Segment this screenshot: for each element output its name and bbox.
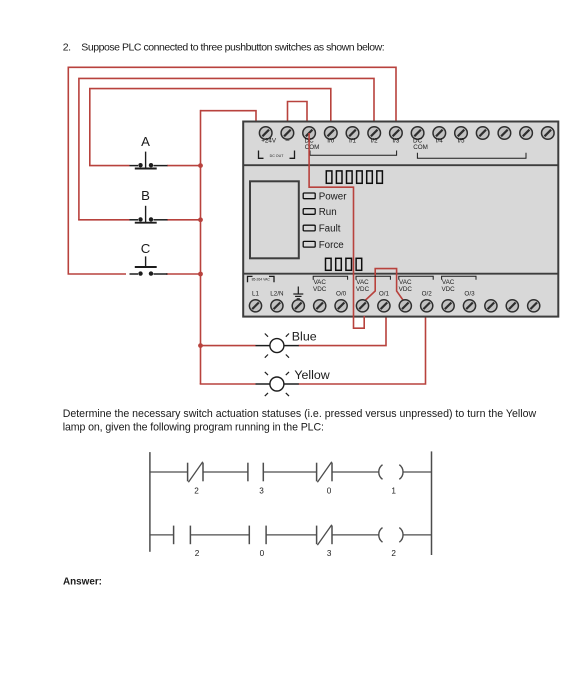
svg-text:0: 0 — [327, 486, 332, 495]
bottom terminal screws — [249, 300, 539, 312]
PLC body outline — [243, 122, 558, 317]
top terminal screws — [259, 127, 554, 140]
yellow indicator lamp — [256, 368, 330, 396]
wire: switch A row red segments — [89, 165, 130, 167]
svg-text:85-264 VAC: 85-264 VAC — [252, 278, 271, 282]
wire: switch B row red segments — [78, 219, 129, 221]
svg-text:Determine the necessary switch: Determine the necessary switch actuation… — [63, 408, 537, 420]
svg-text:2: 2 — [194, 486, 199, 495]
rung 1 NO contact 3 — [248, 463, 264, 496]
svg-text:0: 0 — [260, 549, 265, 558]
bottom row of 4 connector slots — [326, 258, 362, 270]
input group bracket I/0-I/3 — [310, 151, 397, 156]
svg-text:O/1: O/1 — [379, 291, 390, 298]
svg-text:I/4: I/4 — [436, 138, 443, 145]
svg-text:VDC: VDC — [356, 286, 370, 293]
status LEDs and labels — [303, 191, 347, 250]
pushbutton A (normally closed) — [130, 134, 168, 169]
svg-text:O/2: O/2 — [422, 291, 433, 298]
svg-text:2: 2 — [391, 549, 396, 558]
ground terminal symbol — [293, 287, 303, 299]
ladder left power rail — [149, 452, 151, 552]
wire: yellow lamp row red segments — [200, 383, 256, 385]
rung 1 wire — [150, 471, 432, 473]
svg-text:O/0: O/0 — [336, 291, 347, 298]
85-264 VAC bracket — [248, 276, 275, 282]
svg-text:L2/N: L2/N — [270, 291, 284, 298]
svg-text:lamp on, given the following p: lamp on, given the following program run… — [63, 421, 324, 433]
svg-text:DC OUT: DC OUT — [270, 154, 285, 158]
top row of 6 connector slots — [326, 171, 382, 183]
svg-text:VDC: VDC — [399, 286, 413, 293]
svg-text:VDC: VDC — [441, 286, 455, 293]
svg-text:Blue: Blue — [292, 329, 317, 343]
rung 2 NC contact 3 — [317, 525, 332, 559]
svg-text:C: C — [141, 241, 151, 256]
svg-text:Force: Force — [319, 240, 345, 251]
svg-text:Fault: Fault — [319, 224, 341, 235]
svg-text:I/3: I/3 — [392, 138, 399, 145]
svg-text:+24V: +24V — [261, 138, 277, 145]
svg-text:I/2: I/2 — [371, 138, 378, 145]
rung 1 NC contact 0 — [317, 462, 332, 496]
svg-text:Yellow: Yellow — [294, 368, 329, 382]
answer label — [63, 576, 102, 587]
pushbutton C (normally open) — [130, 241, 168, 276]
wire: DC COM routed through module to VAC/VDC common — [309, 133, 364, 328]
svg-text:3: 3 — [327, 549, 332, 558]
svg-text:–: – — [285, 138, 289, 145]
svg-text:Suppose PLC connected to three: Suppose PLC connected to three pushbutto… — [81, 42, 384, 54]
svg-text:L1: L1 — [252, 291, 260, 298]
rung 2 NO contact 2 — [174, 526, 200, 559]
wire: B left, from I/2 over the top to switch B — [79, 78, 374, 219]
svg-text:1: 1 — [391, 486, 396, 495]
wire: jumper VAC/VDC to VAC/VDC over O/1 — [364, 269, 404, 302]
junction dots on supply bus — [198, 163, 203, 168]
instruction paragraph — [63, 408, 537, 433]
bottom terminal labels — [252, 279, 475, 297]
output group brackets — [313, 276, 476, 280]
question number and prompt text — [63, 42, 385, 54]
rung 2 NO contact 0 — [249, 526, 266, 559]
rung 2 output coil 2 — [379, 528, 403, 559]
DC OUT bracket under 24V terminals — [259, 151, 295, 159]
top terminal labels — [261, 138, 465, 151]
svg-text:2.: 2. — [63, 42, 71, 54]
rung 1 NC contact 2 — [188, 462, 203, 496]
wire: switch C row red segments — [68, 273, 127, 275]
wire: jumper terminal 2 to DC COM — [288, 102, 308, 122]
svg-text:Answer:: Answer: — [63, 576, 102, 587]
input group bracket I/4-I/5 — [417, 153, 526, 159]
svg-text:I/5: I/5 — [457, 138, 464, 145]
wire: +24V feed from terminal to right-hand bus — [201, 111, 257, 122]
svg-text:O/3: O/3 — [464, 291, 475, 298]
svg-text:I/1: I/1 — [349, 138, 356, 145]
svg-text:I/0: I/0 — [327, 138, 334, 145]
rung 2 wire — [150, 534, 432, 536]
svg-text:VDC: VDC — [313, 286, 327, 293]
PLC front big panel rectangle — [250, 181, 299, 258]
wire: C left, from I/3 over the top to switch C — [68, 67, 396, 274]
wire: blue lamp row red segments — [200, 345, 256, 347]
svg-text:3: 3 — [259, 486, 264, 495]
svg-text:COM: COM — [305, 144, 320, 151]
wire: A left, from I/0 over the top to switch A — [90, 89, 331, 166]
pushbutton B (normally closed) — [130, 188, 168, 223]
svg-text:COM: COM — [413, 144, 428, 151]
svg-text:A: A — [141, 134, 150, 149]
rung 1 output coil 1 — [379, 465, 403, 496]
svg-text:Power: Power — [319, 191, 348, 202]
wire: vertical supply bus right of switches down to lamps — [200, 110, 202, 384]
svg-text:2: 2 — [195, 549, 200, 558]
svg-text:B: B — [141, 188, 150, 203]
ladder right power rail — [431, 451, 433, 555]
blue indicator lamp — [256, 329, 317, 357]
svg-text:Run: Run — [319, 207, 337, 218]
